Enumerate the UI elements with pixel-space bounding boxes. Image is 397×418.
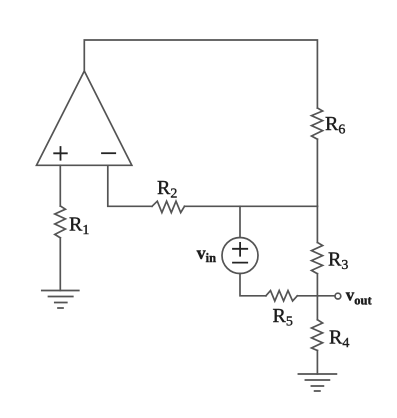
ground G1 [42,291,79,309]
node vout terminal [335,293,341,299]
wire R3 to vout junction [316,274,318,296]
svg-text:R5: R5 [273,305,293,330]
op-amp U1 [37,71,132,165]
svg-text:R4: R4 [329,327,349,352]
Vin - marker [233,262,247,264]
wire junction to vout terminal [317,295,334,297]
resistor R6 [312,108,323,139]
wire R2 to right node [185,205,318,207]
wire R1 to ground [59,238,61,291]
wire R4 to ground [316,351,318,375]
wire + input to R1 [59,165,61,206]
source Vin [222,238,258,274]
svg-text:R6: R6 [325,113,345,138]
resistor R3 [312,243,323,274]
ground G2 [298,374,336,391]
svg-text:vin: vin [197,243,216,265]
svg-text:R3: R3 [328,249,348,274]
wire top feedback from op-amp output to R6 [84,40,317,108]
resistor R4 [312,320,323,351]
wire node to Vin source [239,206,241,237]
wire node down to R3 [316,206,318,242]
resistor R5 [266,291,297,301]
svg-text:vout: vout [346,286,373,308]
wire junction down to R4 [316,296,318,320]
wire R5 to vout junction [297,295,317,297]
Vin + marker [233,243,247,256]
resistor R1 [55,206,66,238]
svg-text:R2: R2 [157,177,177,202]
wire Vin bottom to R5 [240,274,266,296]
op-amp - input marker [102,152,115,154]
svg-text:R1: R1 [69,214,89,239]
op-amp + input marker [54,147,67,160]
wire R6 to node at inverting rail [316,139,318,206]
wire - input down and right to R2 [108,165,152,206]
resistor R2 [152,201,185,212]
